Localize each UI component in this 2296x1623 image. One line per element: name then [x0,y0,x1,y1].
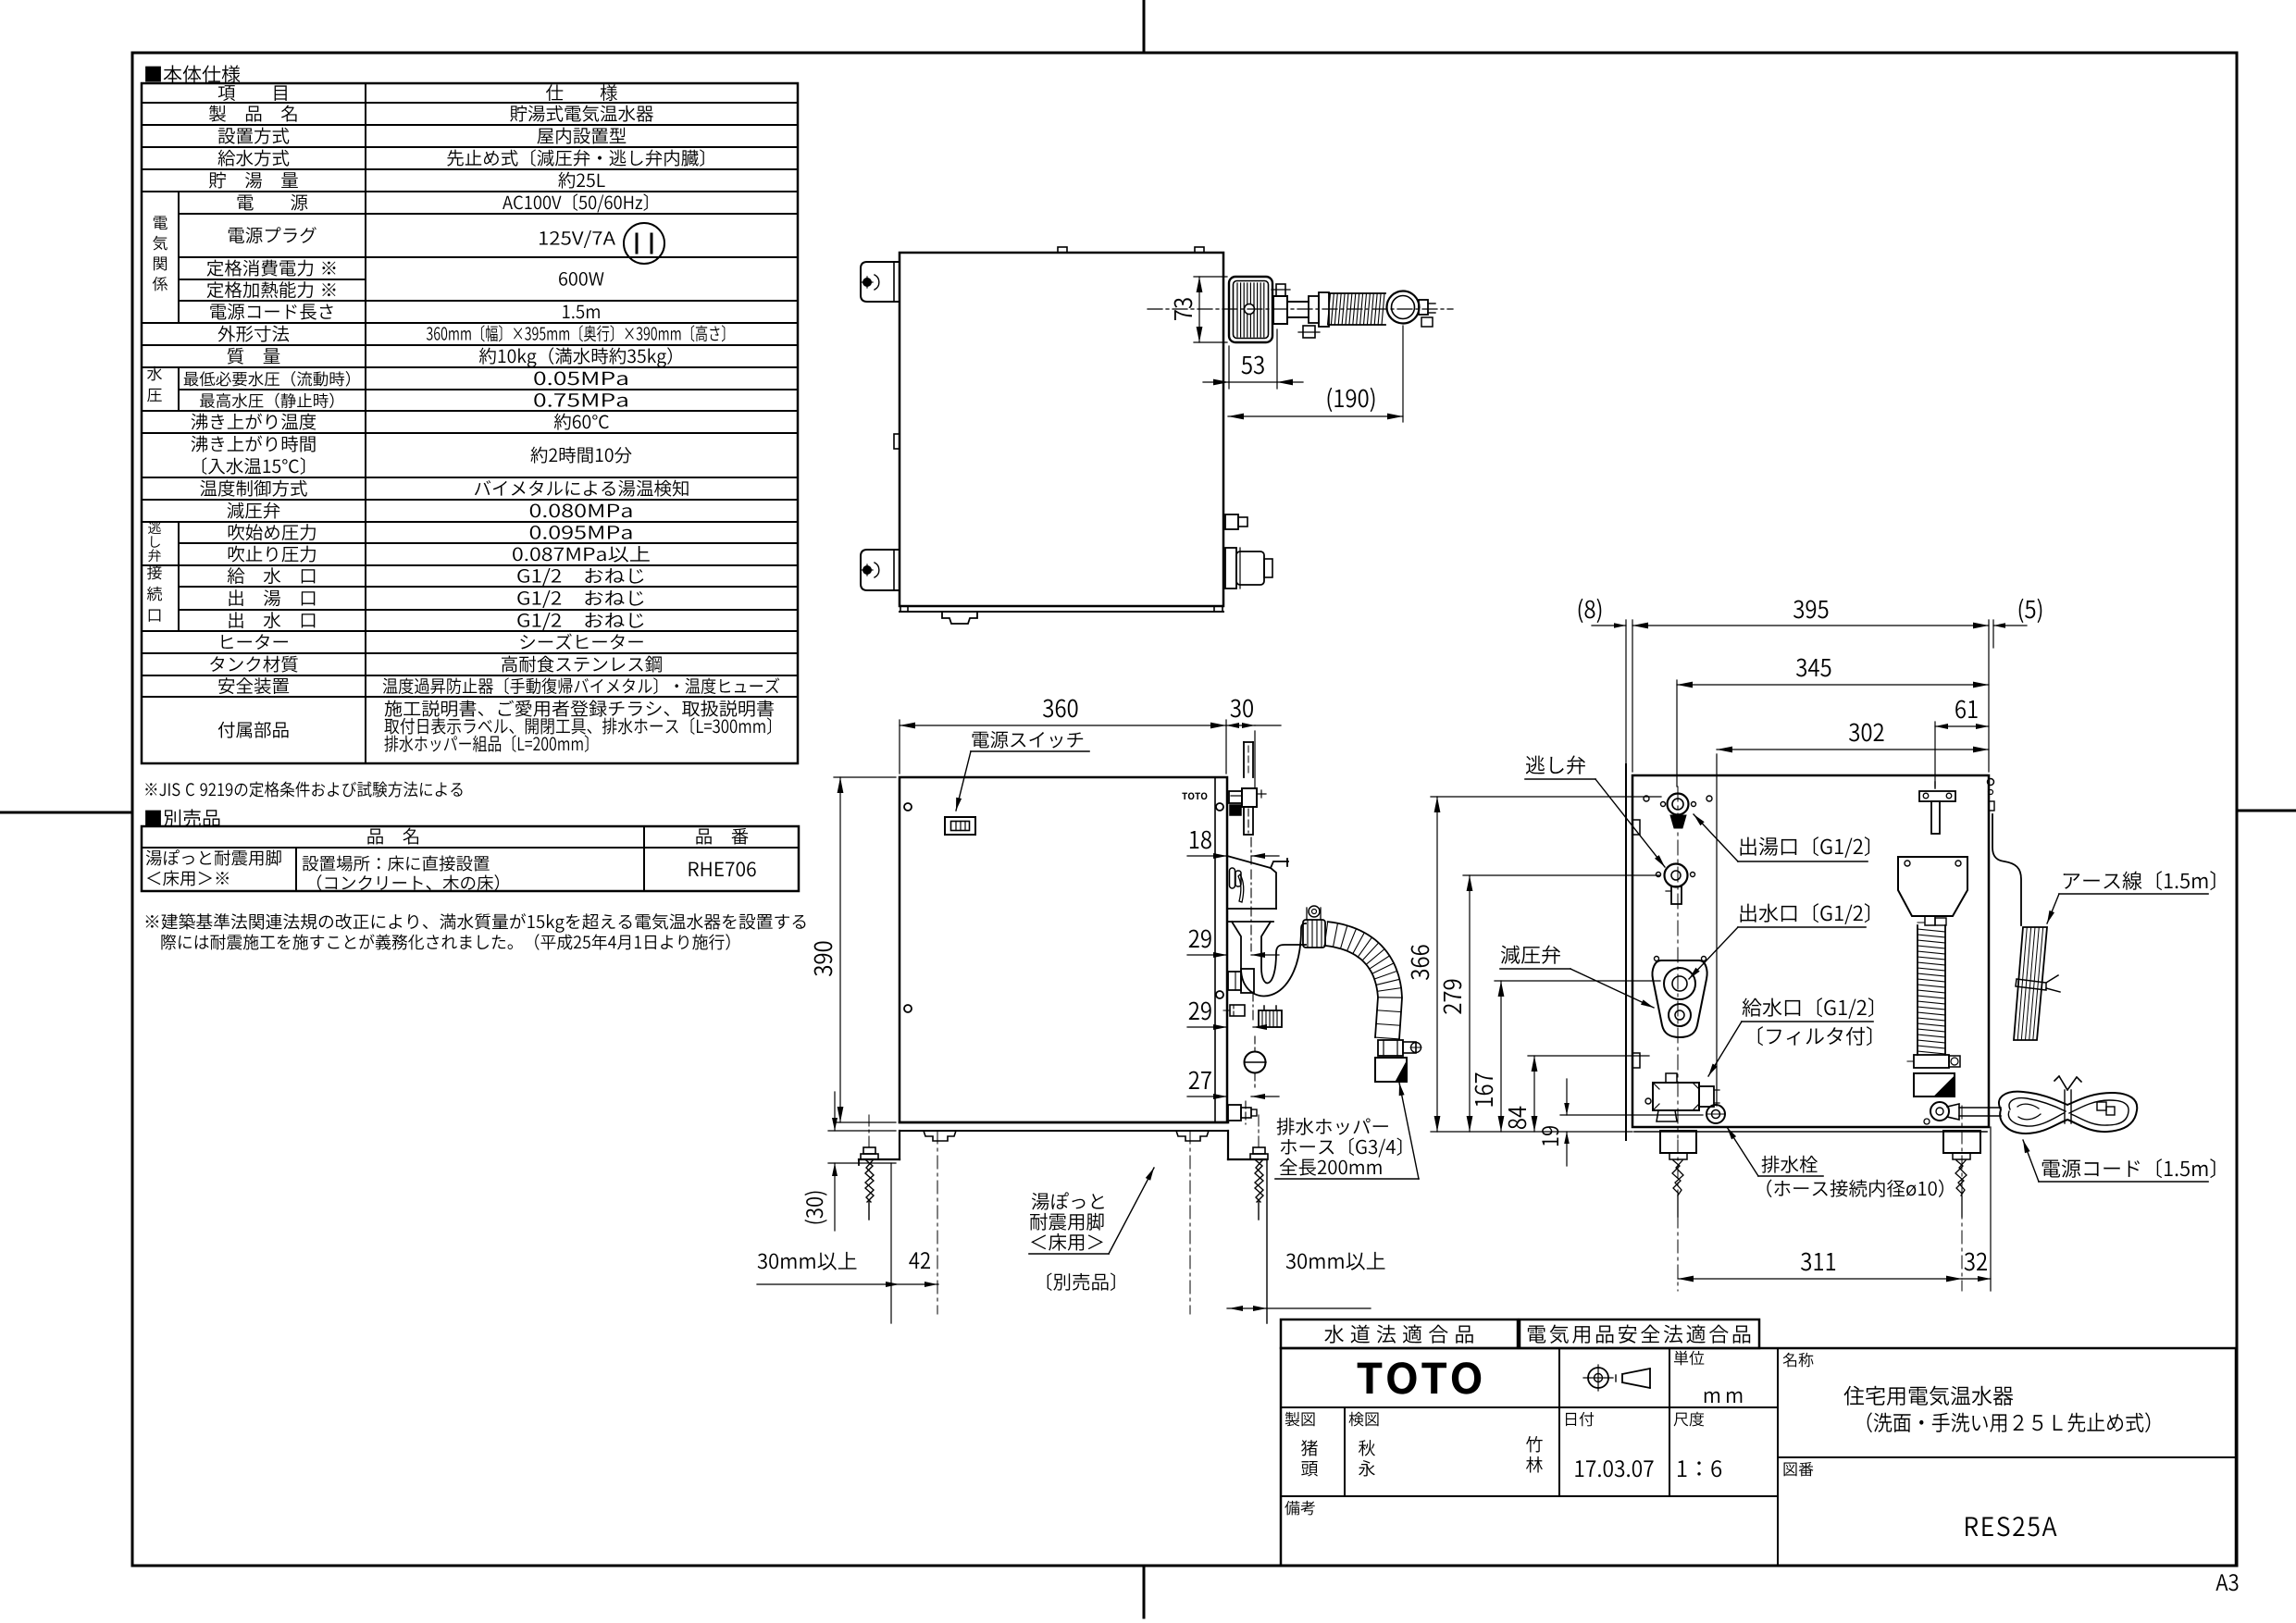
title block grid [1281,1348,2236,1566]
top view hose pipe [1287,292,1329,327]
front view outlet valve assembly [1229,788,1266,835]
top view left edge tab [894,434,900,449]
spec row rated power [207,260,336,277]
top view front panel strip [900,606,1223,624]
side view earth terminal [1988,779,1995,811]
seizu cell [1285,1412,1318,1477]
front view outlet pipe top [1244,742,1253,777]
right center registration mark [2237,810,2296,812]
spec row power source [238,193,648,212]
side view cabinet outline [1632,775,1989,1132]
bottom center registration mark [1143,1568,1146,1617]
spec row rated heating [207,272,604,298]
accessory table grid [142,826,799,891]
top view dim 190 [1228,326,1403,422]
spec row blow stop [229,546,650,563]
spec row boil temperature [192,414,609,430]
side view left dim 167 [1475,981,1660,1132]
spec row weight [228,347,672,367]
scale cell [1674,1412,1722,1478]
spec row hot outlet [229,589,643,608]
side view dim 302 [1717,724,1989,1106]
front view small stub [1223,1005,1245,1016]
label drain hopper hose [1275,1083,1419,1179]
side view hanger bracket [1919,782,1955,834]
accessory place [303,855,499,890]
spec row blow start [229,524,632,540]
label yupotto legs [1029,1168,1154,1291]
front view dim 390 [814,777,896,1122]
top view dim 73 [1174,277,1227,342]
front view mid fitting [1228,969,1254,993]
front view drain hose corrugated [1324,922,1402,1039]
side view left dim 19 [1542,1079,1703,1166]
side view vertical drain hose [1917,925,1945,1055]
side view wall line [1625,764,1627,1140]
accessory number [689,861,756,876]
front view dim 360 [900,700,1226,774]
side view hose clamp [1907,1055,1960,1068]
note building law line2 [161,934,729,949]
front view dim 29 upper [1187,870,1279,958]
group label water pressure [147,366,162,403]
side view dim 345 [1677,659,1989,787]
top view side fitting lower [1225,548,1272,588]
spec row boil time [192,436,632,475]
TOTO logo [1358,1362,1482,1394]
front view base plate [900,1122,1228,1141]
front view panel screws [904,803,1223,1012]
top center registration mark [1143,0,1146,53]
side view bottom dim 311 32 [1678,1127,1991,1291]
spec row water outlet [229,612,643,630]
group label connection ports [147,565,162,622]
top view cabinet outline [900,253,1223,606]
label reducing valve side [1500,945,1654,1008]
spec row safety device [218,677,779,694]
side view left dim 84 [1508,1056,1649,1132]
power cord coil [1999,1076,2137,1134]
side view bottom legs [1660,1131,1980,1217]
front view dim 18 [1187,831,1279,864]
spec row heater [222,634,643,650]
trap outlet coupling [1303,906,1325,948]
spec row min pressure [184,371,627,387]
front view dim 30 [1226,700,1281,788]
side view relief valve [1657,864,1695,905]
top view dim 53 [1203,329,1303,389]
side view reducing valve [1652,957,1706,1038]
top view mounting bracket upper [861,262,900,302]
front view right anchor bolt [1250,1115,1268,1220]
top view hose end coupling [1387,291,1436,328]
front view drain valve circle [1245,1036,1267,1087]
front view dim 30mm min right [1227,1252,1384,1311]
front view left leg bracket [859,1131,900,1165]
front view TOTO logo [1182,792,1207,799]
side view left dim 366 [1411,797,1661,1132]
accessory name [146,849,281,886]
kenzu cell [1349,1412,1543,1477]
earth wire bundle [2014,927,2060,1040]
side view inlet fitting [1653,1073,1719,1121]
side view outlet port [1661,794,1696,829]
bikou cell [1285,1501,1314,1516]
relief funnel [1227,856,1288,922]
top view hose clamp [1272,284,1320,338]
front view right leg bracket [1228,1131,1267,1323]
front view dim (30) [804,1092,896,1231]
front view left leg centerline [937,1131,938,1314]
label relief valve side [1525,755,1665,867]
drain p-trap [1232,922,1306,997]
top view vent grille [1229,277,1272,342]
unit cell [1674,1351,1742,1403]
side view drain port [1706,1105,1725,1123]
sheet size A3 [2215,1574,2238,1591]
power switch [945,817,975,835]
side view heater plate [1898,857,1967,925]
side view ports centerline [1677,787,1679,1138]
spec row water inlet [228,567,644,586]
label drain plug [1727,1127,1943,1197]
side view dim 61 [1935,700,1989,787]
name cell [1783,1353,2151,1432]
title block compliance boxes [1281,1319,1759,1348]
spec row water supply [218,149,704,167]
trap cleanout knob [1259,1006,1282,1027]
spec row tank material [210,656,662,673]
spec row capacity [209,172,605,189]
spec row installation [218,128,627,144]
spec row power plug [229,227,615,248]
front view right leg centerline [1189,1131,1191,1314]
label earth wire [2047,871,2215,923]
label power cord [2023,1140,2215,1182]
spec row temp control [200,480,688,497]
heading honbai-shiyou [145,65,240,82]
date cell [1566,1412,1654,1477]
projection symbol [1583,1365,1650,1391]
spec row max pressure [200,393,627,409]
front view left anchor bolt [861,1115,878,1220]
spec row reducing valve [228,502,632,519]
side view left edge tabs [1632,796,1712,1104]
front view dim 29 lower [1187,992,1281,1030]
side view hose end cap [1914,1073,1955,1096]
front view bottom drain plug [1228,1101,1257,1124]
note building law line1 [146,913,806,933]
spec table grid [142,83,798,763]
power switch label [956,731,1089,811]
spec row accessories [218,700,774,752]
group label relief valve [148,521,161,562]
top view top edge tabs [1058,247,1204,253]
heading betsubaihin [145,809,219,826]
left center registration mark [0,811,130,814]
earth wire [1992,814,2021,925]
top view hose centerline [1148,308,1453,310]
top view mounting bracket lower [861,550,900,590]
spec row product name [209,105,653,122]
side view top dims 8 395 5 [1579,599,2042,772]
power cord grommet [1924,1102,2001,1124]
side view leg centerlines [1678,1106,1962,1291]
front view dim 30mm min left [757,1163,938,1323]
side view left dim 279 [1444,875,1660,1132]
zuban cell [1784,1462,2057,1536]
labels side ports [1694,814,1869,861]
front view cabinet outline [900,777,1227,1122]
spec row header [218,84,617,101]
accessory header [367,828,748,845]
top view side fitting upper [1225,514,1247,529]
front view dim 27 [1187,1072,1279,1099]
spec row dimensions [218,325,726,341]
drain hose end fitting [1375,1040,1421,1082]
spec row cord length [210,304,600,320]
note JIS [145,781,462,797]
power plug icon [624,223,664,264]
group label electric [153,217,168,291]
top view corrugated hose [1328,293,1386,325]
